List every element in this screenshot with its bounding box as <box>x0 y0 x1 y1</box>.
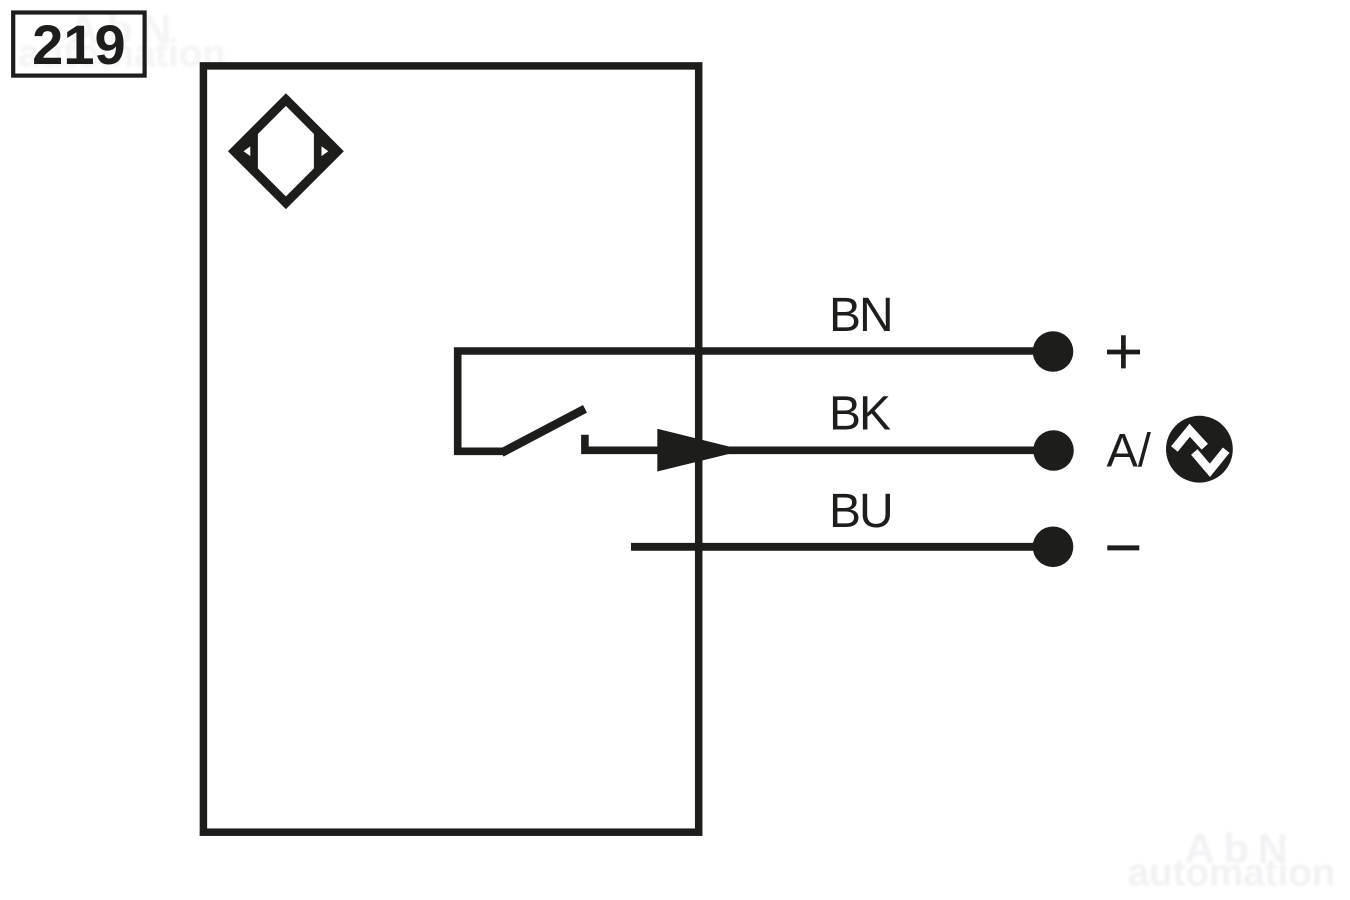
svg-text:BN: BN <box>829 289 892 342</box>
svg-text:BK: BK <box>829 388 891 441</box>
svg-text:A/: A/ <box>1107 424 1152 477</box>
svg-text:219: 219 <box>32 13 125 76</box>
svg-text:BU: BU <box>829 485 892 538</box>
svg-text:automation: automation <box>1128 852 1335 895</box>
